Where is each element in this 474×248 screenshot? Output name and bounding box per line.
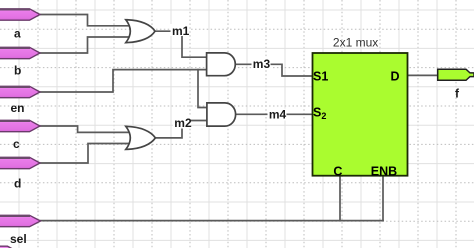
wire OR2 output m2 to AND2 bottom input bbox=[155, 121, 207, 138]
svg-text:sel: sel bbox=[10, 232, 27, 246]
wire AND1 output m3 to mux S1 bbox=[235, 64, 312, 76]
or-gate OR1 bbox=[126, 20, 155, 43]
wire c to OR2 top input bbox=[39, 126, 131, 132]
input pin b bbox=[0, 47, 40, 58]
input pin d bbox=[0, 157, 40, 168]
wire mux C pin down bbox=[339, 177, 341, 221]
wire OR1 output to m1 bbox=[155, 31, 207, 57]
mux U1 (2x1 mux block) bbox=[313, 53, 408, 176]
svg-text:m4: m4 bbox=[269, 108, 287, 122]
wire sel to mux C and ENB bbox=[40, 220, 383, 222]
svg-text:a: a bbox=[14, 26, 21, 40]
and-gate AND1 bbox=[207, 53, 236, 76]
input pin (partial, bottom edge) bbox=[0, 246, 18, 248]
svg-text:b: b bbox=[14, 64, 21, 78]
wire en to AND1 bottom input bbox=[40, 70, 207, 92]
net label m4 bbox=[268, 108, 287, 122]
input pin a bbox=[0, 9, 40, 20]
output pin f bbox=[438, 69, 474, 80]
svg-text:S1: S1 bbox=[313, 70, 328, 84]
net label m1 bbox=[171, 24, 190, 38]
wire a to OR1 top input bbox=[40, 15, 131, 26]
svg-text:en: en bbox=[11, 101, 25, 115]
svg-text:C: C bbox=[333, 165, 342, 179]
svg-text:m1: m1 bbox=[172, 24, 190, 38]
wire mux D output to pin f bbox=[408, 74, 438, 76]
wire d to OR2 bottom input bbox=[39, 144, 131, 164]
input pin sel bbox=[0, 215, 41, 226]
and-gate AND2 bbox=[207, 103, 236, 126]
wire b to OR1 bottom input bbox=[40, 37, 131, 53]
svg-text:d: d bbox=[14, 176, 21, 190]
svg-text:m3: m3 bbox=[253, 57, 271, 71]
net label m2 bbox=[173, 116, 192, 130]
svg-text:m2: m2 bbox=[174, 116, 192, 130]
wire en branch to AND2 top input bbox=[198, 70, 207, 108]
svg-text:D: D bbox=[391, 70, 400, 84]
or-gate OR2 bbox=[126, 126, 156, 149]
input pin en bbox=[0, 86, 40, 97]
svg-text:c: c bbox=[13, 137, 20, 151]
svg-text:ENB: ENB bbox=[371, 165, 397, 179]
input pin c bbox=[0, 120, 40, 131]
wire AND2 output m4 to mux S2 bbox=[236, 113, 313, 115]
svg-text:2x1 mux: 2x1 mux bbox=[333, 35, 378, 49]
net label m3 bbox=[252, 57, 271, 71]
wire mux ENB pin down bbox=[382, 177, 384, 221]
